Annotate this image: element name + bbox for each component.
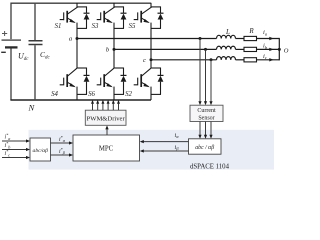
freewheel diode of S6 triangle [121, 76, 127, 82]
freewheel diode of S1 anode lead [86, 20, 88, 29]
arrowhead i*_a into abc/alphabeta [26, 139, 30, 142]
freewheel diode of S5 cathode lead [160, 6, 162, 13]
freewheel diode of S6 anode lead [123, 82, 125, 95]
igbt S3 collector slant [105, 8, 114, 14]
igbt S1 main bar [66, 11, 68, 23]
abc/alphabeta transform box (reference currents) [30, 138, 51, 161]
gate drive arrow 3 [102, 104, 104, 111]
svg-text:S1: S1 [55, 23, 62, 30]
wire: phase leg c (between c emitter and lower cell) [150, 23, 152, 69]
igbt S2 emitter lead to bus [150, 87, 152, 100]
igbt S6 gate [97, 78, 101, 86]
wire: S3 bottom tie [114, 27, 124, 29]
svg-text:N: N [28, 103, 36, 113]
wire: bottom bus N [10, 99, 151, 101]
freewheel diode of S2 triangle [158, 76, 164, 82]
wire: negative DC rail [10, 49, 12, 101]
wire: tap from phase a to current sensor [199, 39, 201, 105]
node a junction dot [76, 37, 79, 40]
wire: load neutral bus O [278, 38, 280, 61]
arrowhead i*_b into abc/alphabeta [26, 148, 30, 151]
wire: L to R phase c [236, 59, 245, 61]
svg-text:abc / αβ: abc / αβ [195, 145, 214, 151]
svg-text:abc/αβ: abc/αβ [33, 148, 49, 154]
PWM&Driver box [85, 110, 126, 125]
node O junction dot [278, 48, 281, 51]
svg-text:ia: ia [263, 29, 268, 36]
MPC controller box [73, 135, 140, 161]
igbt S1 emitter arrowhead [69, 19, 75, 23]
wire: capacitor branch upper lead [34, 3, 36, 40]
node: tap junction dot phase a [199, 37, 202, 40]
wire: S1 bottom tie [77, 27, 87, 29]
node: tap junction dot phase b [204, 48, 207, 51]
igbt S5 collector stub to top bus [150, 3, 152, 8]
freewheel diode of S1 triangle [84, 14, 90, 20]
svg-text:Current: Current [197, 108, 216, 114]
wire: reference input i*_c [2, 157, 29, 159]
svg-text:Cdc: Cdc [40, 50, 51, 61]
battery plus sign [2, 31, 7, 36]
wire: S5 top tie to diode [151, 6, 161, 8]
igbt S6 emitter lead to bus [113, 87, 115, 100]
wire: S5 bottom tie [151, 27, 161, 29]
wire: S3 top tie to diode [114, 6, 124, 8]
wire: capacitor branch lower lead [34, 45, 36, 100]
gate drive arrow 4 [107, 104, 109, 111]
inductor L phase c [217, 57, 236, 60]
battery minus sign [1, 51, 6, 53]
arrowhead into current sensor phase c [209, 101, 212, 105]
wire: S2 top tie to diode [151, 67, 161, 69]
svg-text:c: c [143, 57, 146, 64]
wire: S6 top tie to diode [114, 67, 124, 69]
freewheel diode of S5 anode lead [160, 20, 162, 29]
igbt S4 emitter arrowhead [69, 83, 75, 87]
freewheel diode of S5 cathode bar [158, 12, 164, 14]
current arrow i_b [269, 48, 273, 51]
freewheel diode of S1 cathode lead [86, 6, 88, 13]
svg-text:S4: S4 [51, 91, 58, 98]
igbt S4 emitter lead to bus [76, 87, 78, 100]
svg-text:ib: ib [263, 43, 268, 50]
igbt S3 emitter slant [105, 18, 112, 22]
node b junction dot [113, 48, 116, 51]
wire: R to load bus phase a [257, 38, 280, 40]
svg-text:S5: S5 [129, 23, 136, 30]
arrowhead i_beta into MPC [140, 149, 144, 152]
resistor R phase a [244, 36, 257, 40]
wire: phase leg a (between a emitter and lower cell) [76, 23, 78, 69]
igbt S2 main bar [140, 74, 142, 87]
svg-text:R: R [248, 27, 254, 35]
igbt S1 emitter slant [68, 18, 75, 22]
igbt S2 emitter slant [142, 82, 149, 86]
current arrow i_a [269, 37, 273, 40]
igbt S6 emitter slant [105, 82, 112, 86]
wire: MPC output to PWM&Driver [106, 127, 108, 136]
gate drive arrow 2 [97, 104, 99, 111]
arrowhead i*_c into abc/alphabeta [26, 156, 30, 159]
igbt S2 emitter arrowhead [143, 83, 149, 87]
arrowhead into current sensor phase a [198, 101, 201, 105]
wire: S2 bottom tie [151, 93, 161, 95]
igbt S2 collector slant [142, 68, 151, 76]
arrowhead into PWM&Driver [105, 125, 108, 129]
freewheel diode of S3 cathode lead [123, 6, 125, 13]
arrowhead into abc/alphabeta (measure) b [204, 135, 207, 139]
igbt S5 gate [134, 12, 138, 20]
wire: sensor output a to abc/alphabeta [199, 122, 201, 138]
wire: phase b line to filter [114, 48, 217, 50]
wire: S6 bottom tie [114, 93, 124, 95]
svg-text:i*c: i*c [5, 149, 11, 157]
svg-text:ic: ic [263, 53, 267, 60]
svg-text:dSPACE 1104: dSPACE 1104 [190, 163, 230, 170]
svg-text:L: L [225, 28, 230, 36]
svg-text:O: O [284, 48, 289, 55]
igbt S4 main bar [66, 74, 68, 87]
wire: tap from phase c to current sensor [210, 60, 212, 104]
arrowhead into abc/alphabeta (measure) c [209, 135, 212, 139]
igbt S6 main bar [103, 74, 105, 87]
svg-text:Sensor: Sensor [198, 115, 214, 121]
arrowhead into current sensor phase b [204, 101, 207, 105]
wire: S1 top tie to diode [77, 6, 87, 8]
wire: i*_α to MPC [51, 142, 72, 144]
freewheel diode of S4 cathode lead [86, 68, 88, 76]
node: tap junction dot phase c [210, 58, 213, 61]
freewheel diode of S3 triangle [121, 14, 127, 20]
node c junction dot [150, 58, 153, 61]
freewheel diode of S4 triangle [84, 76, 90, 82]
igbt S4 collector slant [68, 68, 77, 76]
svg-text:PWM&Driver: PWM&Driver [87, 115, 126, 122]
wire: L to R phase b [236, 48, 245, 50]
wire: i_beta to MPC [141, 150, 189, 152]
igbt S1 collector slant [68, 8, 77, 14]
arrowhead i*_β into MPC [69, 153, 73, 156]
svg-text:S2: S2 [125, 91, 132, 98]
svg-text:Udc: Udc [18, 52, 29, 63]
battery U_dc positive plate [2, 39, 22, 41]
arrowhead into abc/alphabeta (measure) a [198, 135, 201, 139]
svg-text:a: a [69, 36, 72, 43]
igbt S3 main bar [103, 11, 105, 23]
wire: positive DC rail and top bus [11, 3, 151, 39]
igbt S5 emitter slant [142, 18, 149, 22]
igbt S5 emitter arrowhead [143, 19, 149, 23]
igbt S2 gate [134, 78, 138, 86]
freewheel diode of S1 cathode bar [84, 12, 90, 14]
freewheel diode of S4 cathode bar [84, 74, 90, 76]
wire: sensor output c to abc/alphabeta [210, 122, 212, 138]
freewheel diode of S3 anode lead [123, 20, 125, 29]
capacitor C_dc plates [29, 41, 43, 45]
resistor R phase c [244, 58, 257, 62]
gate drive arrow 5 [112, 104, 114, 111]
gate drive arrow 1 [92, 104, 94, 111]
wire: sensor output b to abc/alphabeta [205, 122, 207, 138]
wire: phase leg b (between b emitter and lower cell) [113, 23, 115, 69]
arrowhead i_alpha into MPC [140, 140, 144, 143]
resistor R phase b [244, 47, 257, 51]
abc/alphabeta transform box (measured currents) [189, 139, 222, 154]
gate drive arrow 6 [118, 104, 120, 111]
freewheel diode of S6 cathode bar [121, 74, 127, 76]
wire: i*_β to MPC [51, 154, 72, 156]
freewheel diode of S5 triangle [158, 14, 164, 20]
current arrow i_c [269, 58, 273, 61]
wire: S4 top tie to diode [77, 67, 87, 69]
igbt S1 gate [60, 12, 64, 20]
arrowhead i*_α into MPC [69, 141, 73, 144]
freewheel diode of S4 anode lead [86, 82, 88, 95]
wire: i_alpha to MPC [141, 141, 189, 143]
igbt S3 collector stub to top bus [113, 3, 115, 8]
inductor L phase b [217, 46, 236, 49]
igbt S6 collector slant [105, 68, 114, 76]
igbt S1 collector stub to top bus [76, 3, 78, 8]
freewheel diode of S6 cathode lead [123, 68, 125, 76]
wire: R to load bus phase b [257, 48, 280, 50]
inductor L phase a [217, 35, 236, 38]
current sensor box [190, 105, 223, 121]
wire: R to load bus phase c [257, 59, 280, 61]
wire: phase c line to filter [151, 59, 217, 61]
wire: reference input i*_a [2, 140, 29, 142]
igbt S4 gate [60, 78, 64, 86]
dSPACE 1104 shaded region [29, 130, 275, 170]
igbt S5 collector slant [142, 8, 151, 14]
svg-text:S6: S6 [88, 91, 95, 98]
wire: tap from phase b to current sensor [205, 49, 207, 104]
battery U_dc negative plate [5, 46, 18, 48]
freewheel diode of S2 cathode lead [160, 68, 162, 76]
freewheel diode of S2 cathode bar [158, 74, 164, 76]
svg-text:b: b [106, 47, 110, 54]
wire: phase a line to filter [77, 38, 217, 40]
igbt S3 emitter arrowhead [106, 19, 112, 23]
svg-text:S3: S3 [92, 23, 99, 30]
wire: reference input i*_b [2, 149, 29, 151]
svg-text:i*a: i*a [5, 133, 11, 141]
freewheel diode of S2 anode lead [160, 82, 162, 95]
igbt S3 gate [97, 12, 101, 20]
igbt S6 emitter arrowhead [106, 83, 112, 87]
freewheel diode of S3 cathode bar [121, 12, 127, 14]
igbt S4 emitter slant [68, 82, 75, 86]
wire: L to R phase a [236, 38, 245, 40]
wire: S4 bottom tie [77, 93, 87, 95]
svg-text:MPC: MPC [99, 145, 114, 152]
igbt S5 main bar [140, 11, 142, 23]
